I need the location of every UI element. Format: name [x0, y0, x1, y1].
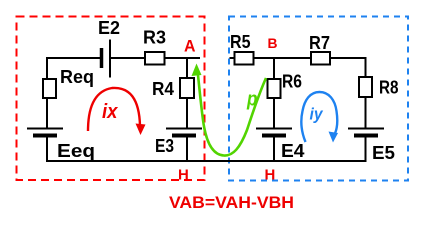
- svg-text:Eeq: Eeq: [57, 141, 95, 161]
- svg-text:ix: ix: [102, 101, 118, 123]
- svg-text:B: B: [268, 35, 278, 51]
- svg-text:E3: E3: [155, 136, 174, 156]
- svg-text:E5: E5: [372, 143, 395, 163]
- svg-text:R4: R4: [152, 79, 174, 99]
- svg-text:H: H: [178, 167, 189, 184]
- svg-text:p: p: [246, 89, 257, 111]
- svg-text:R7: R7: [309, 33, 330, 53]
- svg-text:E2: E2: [98, 18, 120, 38]
- svg-text:A: A: [184, 38, 196, 56]
- svg-text:Req: Req: [60, 67, 94, 87]
- svg-text:R8: R8: [379, 78, 399, 98]
- svg-text:E4: E4: [281, 141, 305, 161]
- svg-text:iy: iy: [310, 105, 324, 124]
- svg-text:VAB=VAH-VBH: VAB=VAH-VBH: [169, 194, 294, 212]
- svg-text:R3: R3: [143, 28, 166, 48]
- svg-text:R5: R5: [230, 32, 251, 52]
- svg-text:R6: R6: [282, 72, 302, 92]
- svg-text:H: H: [265, 167, 276, 184]
